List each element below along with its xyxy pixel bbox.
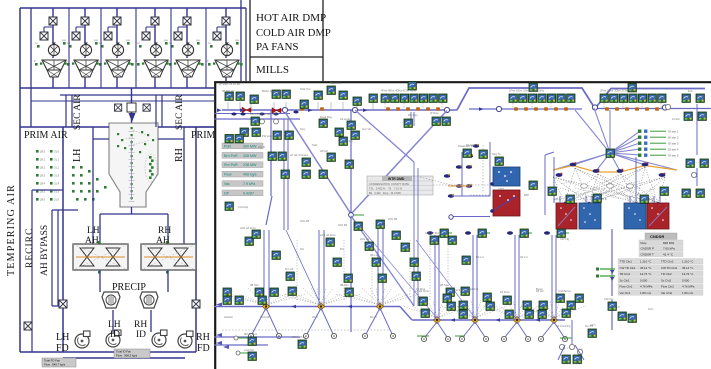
wire: x284 to hub diagonal [286, 230, 320, 303]
svg-text:FW Fl: FW Fl [258, 145, 265, 149]
furnace [109, 123, 158, 207]
svg-text:Att spray: Att spray [340, 117, 351, 121]
svg-text:CONDENSATION COND*Y RATE: CONDENSATION COND*Y RATE [369, 182, 409, 186]
HP heater mesh [560, 188, 655, 203]
svg-text:28.4: 28.4 [40, 182, 46, 186]
orange header zigzag [553, 166, 677, 173]
riser green dashes row [444, 232, 569, 234]
condenser waterbox red B [647, 203, 669, 229]
hot air damper, train 1 [49, 17, 57, 25]
svg-text:0.000: 0.000 [682, 278, 690, 282]
air heater LH [73, 241, 128, 274]
svg-text:Flow Cln2: Flow Cln2 [661, 285, 674, 289]
PA fan, train 2 [80, 43, 91, 56]
wire: bottom right drop [558, 320, 584, 360]
mill train 2 riser wire [84, 8, 86, 88]
burner nozzle [129, 113, 136, 122]
svg-text:fl: fl [66, 59, 68, 63]
svg-text:SHtr Out: SHtr Out [300, 87, 311, 91]
svg-text:ID: ID [110, 330, 120, 340]
svg-text:0.000: 0.000 [640, 278, 648, 282]
wire: condensate header left [214, 306, 400, 308]
LP heater hub x475 [471, 316, 478, 323]
svg-text:Spry: Spry [300, 127, 306, 131]
wire: BFP verticals [452, 142, 490, 196]
svg-text:Flow 908.2 kg/s: Flow 908.2 kg/s [116, 353, 138, 357]
svg-text:SEC AIR: SEC AIR [175, 94, 185, 130]
svg-text:Exh: Exh [688, 89, 693, 93]
wire: mill outlet header [20, 87, 240, 89]
svg-text:W Step: 14 10 ML: W Step: 14 10 ML [219, 82, 241, 86]
svg-text:t: t [239, 58, 240, 62]
furnace internal instruments [117, 127, 157, 202]
svg-text:Cnd Hdr: Cnd Hdr [260, 315, 270, 319]
wire: heater riser x266 [264, 230, 269, 306]
label box border [250, 0, 323, 84]
svg-text:LH: LH [108, 320, 121, 330]
svg-text:Var Cln1: Var Cln1 [620, 291, 631, 295]
svg-text:COLD AIR DMP: COLD AIR DMP [256, 28, 331, 39]
svg-text:Cnd Boost: Cnd Boost [558, 289, 571, 293]
svg-text:4B Stm: 4B Stm [250, 283, 260, 287]
svg-text:CWT: CWT [498, 187, 504, 191]
wire: RH duct [184, 127, 214, 244]
cold air damper, train 4 [142, 32, 150, 40]
svg-text:ID: ID [136, 330, 146, 340]
PA fan, train 6 [221, 43, 232, 56]
svg-text:Gl Stm: Gl Stm [672, 117, 680, 121]
LP heater hub x517 [513, 316, 520, 323]
wire: secondary header [60, 94, 240, 96]
mill train 5 cold-air branch wire [178, 27, 187, 40]
wire: dashed level line [222, 329, 390, 331]
CNDSR header [645, 233, 677, 239]
svg-text:Sc Cln2: Sc Cln2 [661, 278, 672, 282]
svg-text:4.76 MPa: 4.76 MPa [640, 285, 653, 289]
svg-text:LP Htr 3 Drains: LP Htr 3 Drains [290, 153, 309, 157]
svg-text:DC Fl: DC Fl [370, 315, 377, 319]
svg-text:LPH 1A Drns: LPH 1A Drns [425, 231, 441, 235]
svg-text:CNDSR T: CNDSR T [641, 252, 654, 256]
CNDSR summary rows [639, 240, 683, 257]
damper on left duct [59, 300, 67, 308]
svg-text:t.c: t.c [208, 41, 211, 45]
svg-text:Duty: Duty [641, 241, 648, 245]
right edge pump [665, 104, 670, 109]
hot air damper, train 3 [113, 17, 121, 25]
wire: main steam run [222, 109, 457, 111]
cold air damper, train 6 [213, 32, 221, 40]
svg-text:Rm PoR: Rm PoR [224, 163, 238, 167]
wire: waterbox inlet pairs [560, 196, 660, 203]
condenser waterbox blue B [624, 203, 646, 229]
wire: HP turbine bridge [457, 88, 595, 110]
arrow marks on condensate header [291, 305, 540, 322]
green drain segs right [417, 336, 572, 338]
svg-text:BFP: BFP [524, 193, 529, 197]
cold air damper, train 5 [174, 32, 182, 40]
wire: deaerator feed vertical [414, 162, 418, 306]
hub x517 drain pumps [501, 336, 506, 341]
wire: sec air duct right [156, 95, 162, 127]
svg-text:238 MW: 238 MW [243, 163, 257, 167]
upper red tank [490, 190, 520, 216]
svg-text:p.a: p.a [164, 39, 168, 42]
reheat spray drop pair [411, 112, 414, 126]
svg-text:MILLS: MILLS [256, 64, 289, 76]
svg-text:p.a: p.a [126, 39, 130, 42]
mill, train 2 [72, 60, 99, 77]
svg-text:1.210 °C: 1.210 °C [640, 260, 651, 264]
upper blue tank [490, 167, 520, 186]
mill train 1 riser wire [52, 8, 54, 88]
left HMI screenshot background [6, 0, 331, 367]
LP heater hub x554 [550, 316, 557, 323]
damper on recirc duct [24, 322, 32, 330]
instrument ticks train 6 [208, 42, 243, 66]
instrument icons [223, 82, 708, 364]
mill train 3 cold-air branch wire [108, 27, 117, 40]
svg-text:Htr Lvl: Htr Lvl [520, 255, 528, 259]
left instrument column [36, 150, 60, 202]
cold air damper, train 2 [72, 32, 80, 40]
line nodes [282, 105, 667, 113]
instrument ticks train 3 [99, 42, 134, 66]
riser knots row [427, 231, 550, 234]
hub x437 drain pumps [421, 336, 426, 341]
hub x475 drain wires [463, 322, 485, 337]
svg-text:Gl Stm Cond: Gl Stm Cond [455, 288, 471, 292]
svg-text:FW pmps: FW pmps [262, 134, 274, 138]
green makeup line [238, 338, 248, 353]
svg-text:Bk 3.432 Dmp 44.0 MW: Bk 3.432 Dmp 44.0 MW [369, 191, 401, 195]
svg-text:LPH 2A: LPH 2A [360, 237, 369, 241]
wire: AH bypass duct [52, 210, 78, 306]
svg-text:HP Htr: HP Htr [320, 149, 328, 153]
ID fan RH [152, 330, 167, 347]
mill train 1 cold-air branch wire [44, 27, 53, 40]
hub x554 drain wires [542, 322, 564, 337]
FD fan flow readout box [42, 358, 76, 367]
dashed drops into waterboxes [560, 199, 666, 206]
svg-text:31.2: 31.2 [54, 166, 60, 170]
svg-text:Deaerator 5A: Deaerator 5A [458, 144, 474, 148]
hub x517 drain wires [505, 322, 527, 337]
wire: tempering air duct (left vertical) [19, 8, 21, 352]
precipitator LH [102, 292, 120, 308]
svg-text:CW Out: CW Out [604, 297, 614, 301]
svg-text:31.1: 31.1 [54, 158, 60, 162]
FD fan LH [75, 331, 90, 348]
tiny labels [219, 81, 635, 352]
svg-text:300 MW: 300 MW [243, 144, 257, 148]
svg-text:CNDSR P: CNDSR P [641, 247, 655, 251]
cold air damper, train 1 [40, 32, 48, 40]
svg-text:28.1: 28.1 [40, 158, 46, 162]
wire: heater side risers [545, 152, 636, 215]
svg-text:LPH 4A Drns: LPH 4A Drns [240, 226, 256, 230]
svg-text:RH Spry: RH Spry [408, 113, 419, 117]
wire: IP turbine bridge [595, 89, 705, 109]
svg-text:FD: FD [56, 343, 69, 354]
svg-text:28.2: 28.2 [40, 166, 46, 170]
wire: line under bridges [469, 108, 711, 111]
svg-text:LPH 2B: LPH 2B [388, 217, 397, 221]
mill, train 4 [142, 60, 169, 77]
mill train 3 riser wire [116, 8, 118, 88]
svg-text:31.4: 31.4 [54, 182, 60, 186]
heater cluster mesh extra [560, 181, 640, 184]
svg-text:Scrn: Scrn [648, 307, 654, 311]
svg-text:31.3: 31.3 [54, 174, 60, 178]
feedwater valve 2 [272, 108, 281, 114]
hot air damper, train 5 [183, 17, 191, 25]
wire: down header x284 [284, 119, 288, 230]
wire: LH duct [92, 127, 94, 244]
wire: heater riser x380 [378, 222, 383, 306]
wire: second header [214, 118, 300, 120]
svg-text:MU Fr Res: MU Fr Res [244, 332, 258, 336]
wire: furnace downcomer [131, 88, 133, 140]
svg-text:Sc Cln1: Sc Cln1 [620, 278, 631, 282]
wire: furnace side taps [93, 138, 184, 140]
burner damper right [143, 104, 150, 111]
wire: tertiary header [31, 100, 240, 102]
svg-text:4A Cond Pp: 4A Cond Pp [556, 324, 571, 328]
svg-text:Gl Cnd: Gl Cnd [470, 287, 479, 291]
mill, train 3 [104, 60, 131, 77]
wire: AH outlet to precip [100, 270, 168, 332]
svg-text:LH: LH [72, 149, 83, 162]
FD fan RH [178, 331, 193, 348]
wire: feed riser to hub [266, 110, 272, 225]
svg-text:408 kg/s: 408 kg/s [243, 173, 257, 177]
extra tiny labels [224, 89, 693, 327]
boiler feed pump knots [444, 144, 479, 198]
svg-text:1Fhtr 1Ehtr 1Dhtr 1Chtr 1Bhtr: 1Fhtr 1Ehtr 1Dhtr 1Chtr 1Bhtr [509, 89, 544, 93]
condensate arrows [610, 270, 614, 281]
wire: prim air line left [20, 126, 109, 128]
svg-text:AH: AH [156, 236, 170, 246]
mill train 4 cold-air branch wire [146, 27, 155, 40]
PA fan, train 3 [112, 43, 123, 56]
svg-text:HOT AIR DMP: HOT AIR DMP [256, 12, 326, 24]
svg-text:Gl stm 1: Gl stm 1 [668, 130, 679, 134]
mill, train 6 [213, 60, 240, 77]
svg-text:Gl stm 5: Gl stm 5 [668, 154, 679, 158]
svg-text:LPH 3A Drns: LPH 3A Drns [320, 233, 336, 237]
wire: condensate bottom lines [214, 337, 300, 345]
svg-text:2Fhtr 2Ehtr 2Dhtr 2Chtr 2Bhtr: 2Fhtr 2Ehtr 2Dhtr 2Chtr 2Bhtr [600, 89, 635, 93]
svg-text:SHtr: SHtr [312, 143, 317, 147]
hub x554 riser [552, 235, 556, 320]
svg-text:1B Htr: 1B Htr [536, 289, 544, 293]
gland steam legend rows [638, 130, 679, 158]
ID fan flow readout box [114, 349, 150, 358]
svg-text:1A Htr Drns: 1A Htr Drns [415, 289, 430, 293]
svg-text:Drn: Drn [340, 247, 345, 251]
extraction knots [556, 162, 666, 177]
wire: right edge drop [696, 104, 698, 186]
svg-text:2A Drns: 2A Drns [500, 290, 510, 294]
svg-text:t.c: t.c [35, 41, 38, 45]
svg-text:LH: LH [87, 226, 100, 236]
svg-text:1.80 m/s: 1.80 m/s [682, 291, 694, 295]
svg-text:Hotwell: Hotwell [224, 315, 233, 319]
svg-text:45 Fl: 45 Fl [312, 315, 318, 319]
right screenshot border [215, 82, 711, 369]
condenser waterbox blue A [579, 203, 601, 229]
wire: tank drain line [453, 216, 490, 218]
wire: recirc duct [32, 190, 63, 352]
orange dampers on main run [300, 107, 659, 111]
svg-text:TR Cln1: TR Cln1 [620, 272, 631, 276]
svg-text:828 MW: 828 MW [663, 241, 674, 245]
svg-text:t.c: t.c [137, 41, 140, 45]
svg-text:45.14 °C: 45.14 °C [682, 266, 693, 270]
svg-text:Vac: Vac [224, 182, 230, 186]
wire: heater riser x321 [319, 230, 324, 306]
svg-text:Gl stm 4: Gl stm 4 [668, 148, 679, 152]
air heater RH [141, 241, 196, 274]
cold air damper, train 3 [104, 32, 112, 40]
svg-text:CW In Pmp: CW In Pmp [292, 335, 306, 339]
mill, train 1 [40, 60, 67, 77]
svg-text:LH: LH [56, 332, 69, 343]
svg-text:Flow: Flow [224, 173, 232, 177]
hub x475 drain pumps [459, 336, 464, 341]
hub x266 drain pumps [248, 333, 253, 338]
svg-text:3B Stm: 3B Stm [340, 283, 350, 287]
svg-text:PRECIP: PRECIP [112, 282, 146, 293]
svg-text:4.76 MPa: 4.76 MPa [682, 285, 695, 289]
stubs under boiler-end icons [228, 102, 373, 109]
svg-text:fl: fl [168, 59, 170, 63]
burner damper left [115, 104, 122, 111]
svg-text:31.0: 31.0 [54, 150, 60, 154]
HP heater ellipses [581, 184, 634, 188]
svg-text:Gl stm 3: Gl stm 3 [668, 142, 679, 146]
svg-text:RH: RH [196, 332, 210, 343]
LP heater hub x266 [262, 303, 269, 310]
condensate green bars [600, 269, 615, 276]
heater mesh dashes [553, 167, 665, 203]
hot air damper, train 2 [81, 17, 89, 25]
svg-text:Main Stm: Main Stm [330, 81, 342, 85]
svg-text:PA FANS: PA FANS [256, 41, 299, 53]
LP heater hub x380 [376, 303, 383, 310]
svg-text:TTD Cln2: TTD Cln2 [661, 260, 674, 264]
svg-text:WTR DMD: WTR DMD [388, 177, 405, 181]
hub x266 drain wires [252, 308, 278, 334]
mill train 6 cold-air branch wire [217, 27, 226, 40]
PA fan, train 5 [182, 43, 193, 56]
svg-text:fl: fl [207, 59, 209, 63]
svg-text:p.a: p.a [94, 39, 98, 42]
instrument ticks train 1 [35, 42, 70, 66]
left edge arrows [216, 303, 229, 350]
svg-text:Boiler spray rmt: Boiler spray rmt [262, 89, 281, 93]
svg-text:LPH 3B: LPH 3B [338, 223, 347, 227]
wire: right main downduct [195, 127, 197, 330]
feedwater valve 1 [242, 107, 251, 113]
mill, train 5 [174, 60, 201, 77]
wire: prim air line right [158, 126, 214, 128]
condenser detail table [618, 259, 703, 296]
svg-text:2B Stm: 2B Stm [440, 283, 450, 287]
wire: sec air duct left [66, 95, 72, 127]
dashed BFP column [482, 145, 484, 192]
svg-text:Htr Lvl: Htr Lvl [370, 253, 378, 257]
svg-text:19.76 °C: 19.76 °C [640, 272, 651, 276]
svg-text:AH: AH [85, 236, 99, 246]
wire: diagonal to deaerator [351, 110, 414, 306]
svg-text:4Fhtr 4Ehtr 4Dhtr 4Chtr 4Bhtr: 4Fhtr 4Ehtr 4Dhtr 4Chtr 4Bhtr [381, 89, 416, 93]
svg-text:Drn: Drn [300, 247, 305, 251]
LP heater hub x437 [433, 316, 440, 323]
svg-text:PRIM AIR: PRIM AIR [24, 130, 68, 141]
svg-text:DP: DP [224, 191, 230, 195]
svg-text:41.4 °C: 41.4 °C [663, 252, 674, 256]
wire: parallel feed line [214, 113, 290, 115]
svg-text:IP Dmp: IP Dmp [430, 111, 439, 115]
svg-text:28.3: 28.3 [40, 174, 46, 178]
instrument ticks train 2 [67, 42, 102, 66]
hub x517 riser [515, 235, 519, 320]
svg-text:1.80 m/s: 1.80 m/s [640, 291, 652, 295]
svg-text:31.6: 31.6 [54, 198, 60, 202]
hot air damper, train 4 [151, 17, 159, 25]
svg-text:TEMPERING AIR: TEMPERING AIR [6, 184, 17, 276]
ID fan LH [106, 330, 121, 347]
mill train 6 riser wire [225, 8, 227, 88]
svg-text:0.4287: 0.4287 [243, 191, 254, 195]
svg-text:RECIRC: RECIRC [25, 228, 35, 268]
PA fan, train 1 [48, 43, 59, 56]
svg-text:t: t [130, 58, 131, 62]
svg-text:Feed Reg: Feed Reg [320, 115, 332, 119]
hub x554 drain pumps [538, 336, 543, 341]
wire: top air header [20, 7, 246, 9]
mill train 4 riser wire [154, 8, 156, 88]
LP heater hub x321 [317, 303, 324, 310]
svg-text:45.14 °C: 45.14 °C [640, 266, 651, 270]
knots under main line [231, 111, 298, 116]
node tank drain [449, 215, 453, 219]
wire: extra lavender diagonals [351, 216, 475, 318]
hub x437 drain wires [425, 322, 447, 337]
wire: bottom flue duct [20, 330, 196, 358]
svg-text:Gov Vlv: Gov Vlv [362, 127, 372, 131]
svg-text:1.210 °C: 1.210 °C [682, 260, 693, 264]
svg-text:Eco In: Eco In [240, 133, 248, 137]
svg-text:TR Cln2: TR Cln2 [661, 272, 672, 276]
bottom right cluster [559, 344, 582, 364]
svg-text:28.6: 28.6 [40, 198, 46, 202]
mill train 5 riser wire [186, 8, 188, 88]
wire: right header pair [241, 0, 246, 84]
svg-text:LPH 4B: LPH 4B [300, 219, 309, 223]
svg-text:p.a: p.a [62, 39, 66, 42]
condenser waterbox red A [556, 203, 577, 229]
damper on right duct [192, 300, 200, 308]
svg-text:7.60 kPa: 7.60 kPa [663, 247, 675, 251]
svg-text:Var Cln2: Var Cln2 [661, 291, 672, 295]
orange drain line upper [448, 185, 470, 187]
wire: boiler diagonal feed [285, 111, 447, 215]
svg-text:Flow Cln1: Flow Cln1 [620, 285, 633, 289]
svg-text:7.9 kPa: 7.9 kPa [243, 182, 255, 186]
